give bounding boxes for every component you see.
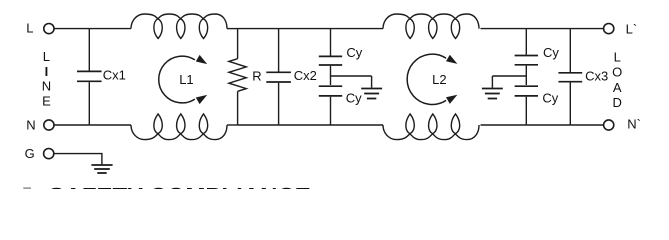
svg-text:E: E xyxy=(42,93,51,108)
inductor L1 top winding xyxy=(131,14,227,39)
svg-text:L1: L1 xyxy=(179,72,193,87)
terminal L xyxy=(44,24,54,34)
svg-text:Cy: Cy xyxy=(346,91,362,106)
capacitor Cy2 lower xyxy=(515,85,538,87)
wire bottom: Cx2 node to Cy1 node xyxy=(279,124,331,126)
svg-text:Cy: Cy xyxy=(346,45,362,60)
inductor L2 top winding xyxy=(383,14,479,39)
wire bottom: Cy2 node to Cx3 node xyxy=(526,124,570,126)
wire Cy2 tap horizontal xyxy=(492,75,526,77)
wire Cy2 bottom lead xyxy=(525,97,527,125)
terminal L-prime xyxy=(604,24,614,34)
svg-text:Cy: Cy xyxy=(543,45,559,60)
wire top: Cx2 node to Cy1 node xyxy=(279,28,331,30)
wire top: R node to Cx2 node xyxy=(238,28,279,30)
wire bottom: L1 to R node xyxy=(227,124,238,126)
wire Cx2 top lead xyxy=(278,29,280,72)
wire top: Cy2 node to Cx3 node xyxy=(526,28,570,30)
svg-text:Cx1: Cx1 xyxy=(103,67,126,82)
svg-text:N: N xyxy=(42,79,51,94)
ground G xyxy=(91,164,112,166)
wire Cy1 tap horizontal xyxy=(331,75,372,77)
wire Cx3 top lead xyxy=(569,29,571,72)
ground Cy2 xyxy=(482,88,503,90)
wire top: Cx1 node to L1 xyxy=(89,28,131,30)
wire Cy2 mid lead xyxy=(525,66,527,85)
wire bottom: Cx1 node to L1 xyxy=(89,124,131,126)
terminal N-prime xyxy=(604,120,614,130)
wire Cy2 top lead xyxy=(525,29,527,55)
wire bottom: Cx3 node to N-prime xyxy=(570,124,603,126)
svg-text:L: L xyxy=(614,49,621,64)
wire bottom: N terminal to Cx1 node xyxy=(54,124,89,126)
svg-text:O: O xyxy=(612,65,622,80)
capacitor Cy2 upper xyxy=(515,55,538,57)
wire top: Cy1 node to L2 xyxy=(331,28,384,30)
resistor R xyxy=(229,59,246,92)
heading bullet xyxy=(23,187,31,195)
wire Cx2 bottom lead xyxy=(278,83,280,125)
inductor L1 bottom winding xyxy=(131,114,227,140)
wire bottom: L2 to Cy2 node xyxy=(481,124,527,126)
inductor L2 bottom winding xyxy=(383,114,479,140)
svg-text:A: A xyxy=(613,80,622,95)
svg-text:L2: L2 xyxy=(432,72,446,87)
capacitor Cx1 xyxy=(77,70,102,72)
svg-text:L: L xyxy=(43,49,50,64)
wire Cy2 tap stem xyxy=(491,76,493,88)
svg-text:L`: L` xyxy=(626,21,638,36)
capacitor Cx2 xyxy=(266,71,291,73)
wire Cx1 top lead xyxy=(88,29,90,71)
wire top: L1 to R node xyxy=(227,28,238,30)
ground Cy1 xyxy=(361,88,382,90)
wire G to ground xyxy=(54,154,102,165)
svg-text:Cy: Cy xyxy=(542,91,558,106)
svg-text:Cx3: Cx3 xyxy=(585,69,608,84)
wire Cy1 top lead xyxy=(330,29,332,56)
wire bottom: Cy1 node to L2 xyxy=(331,124,384,126)
wire R bottom lead xyxy=(237,91,239,125)
flux arrow L1 xyxy=(159,56,195,103)
wire top: L terminal to Cx1 node xyxy=(54,28,89,30)
wire Cx3 bottom lead xyxy=(569,83,571,126)
svg-text:R: R xyxy=(252,68,261,83)
wire R top lead xyxy=(237,29,239,59)
svg-text:Cx2: Cx2 xyxy=(294,68,317,83)
flux arrow L2 xyxy=(407,54,446,104)
wire Cy1 bottom lead xyxy=(330,97,332,125)
capacitor Cx3 xyxy=(558,72,582,74)
wire top: Cx3 node to L-prime xyxy=(570,28,603,30)
svg-text:SAFETY COMPLIANCE: SAFETY COMPLIANCE xyxy=(49,184,311,190)
svg-text:I: I xyxy=(45,64,49,79)
wire top: L2 to Cy2 node xyxy=(481,28,527,30)
wire Cx1 bottom lead xyxy=(88,82,90,125)
capacitor Cy1 lower xyxy=(319,85,342,87)
svg-text:D: D xyxy=(613,95,622,110)
wire bottom: R node to Cx2 node xyxy=(238,124,279,126)
wire Cy1 tap stem xyxy=(371,76,373,88)
svg-text:N`: N` xyxy=(627,117,641,132)
capacitor Cy1 upper xyxy=(319,55,342,57)
terminal G xyxy=(44,149,54,159)
terminal N xyxy=(44,120,54,130)
wire Cy1 mid lead xyxy=(330,66,332,85)
svg-text:N: N xyxy=(26,118,35,133)
svg-text:L: L xyxy=(26,20,33,35)
svg-text:G: G xyxy=(25,146,35,161)
